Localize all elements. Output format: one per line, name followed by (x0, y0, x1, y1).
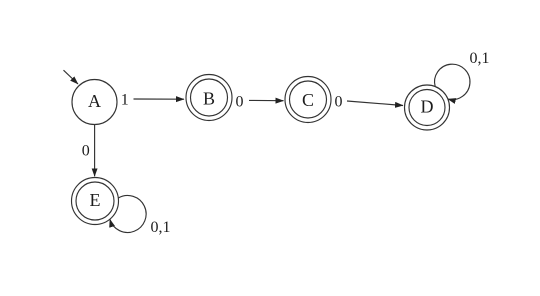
svg-text:0,1: 0,1 (470, 50, 490, 67)
svg-text:0: 0 (335, 93, 343, 110)
svg-text:0: 0 (82, 143, 90, 160)
svg-text:D: D (421, 96, 434, 116)
svg-text:0: 0 (236, 93, 244, 110)
svg-text:C: C (302, 90, 314, 110)
svg-text:1: 1 (121, 92, 129, 109)
svg-text:B: B (203, 89, 215, 109)
svg-text:0,1: 0,1 (151, 219, 171, 236)
svg-text:E: E (90, 190, 101, 210)
svg-text:A: A (88, 91, 101, 111)
